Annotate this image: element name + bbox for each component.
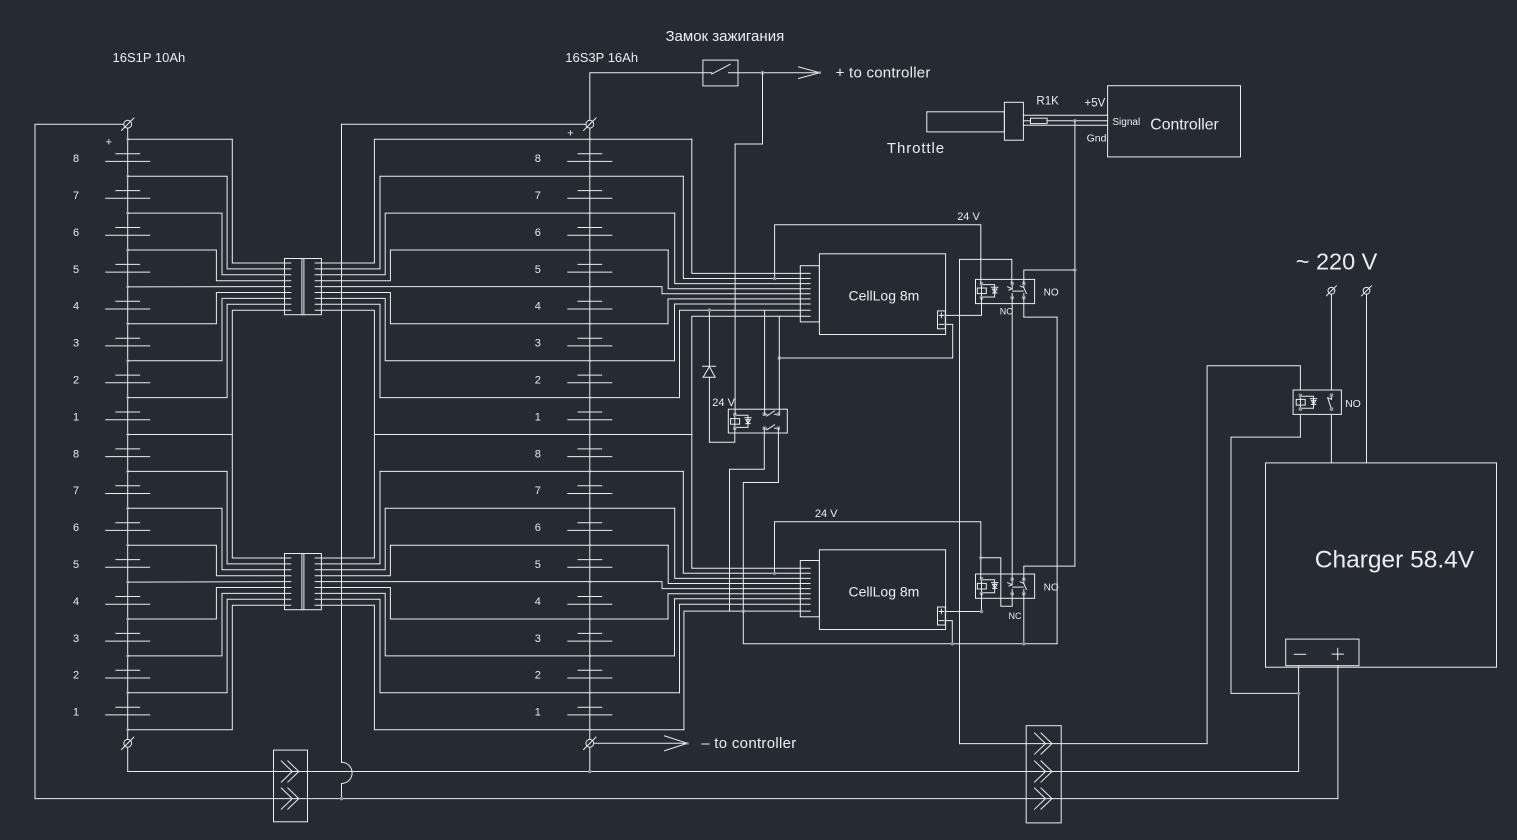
wire: K3 bottom-right contact down to output bus [743, 428, 778, 611]
node: B2 - on minus rail [588, 770, 592, 774]
svg-text:3: 3 [73, 633, 79, 645]
svg-text:6: 6 [535, 522, 541, 534]
B1 negative terminal (bottom circle) [124, 739, 132, 747]
svg-text:2: 2 [535, 375, 541, 387]
wire: K2 NO top to sense line end [1024, 566, 1075, 579]
svg-text:Gnd: Gnd [1087, 132, 1107, 144]
svg-text:2: 2 [73, 375, 79, 387]
svg-text:24 V: 24 V [815, 508, 838, 520]
wire: minus rail (negative bus to charger -) [128, 771, 1299, 773]
svg-text:7: 7 [73, 485, 79, 497]
svg-text:8: 8 [535, 153, 541, 165]
wire: charger + down to plus rail [1337, 666, 1339, 799]
svg-text:NC: NC [1009, 611, 1022, 621]
svg-text:7: 7 [535, 190, 541, 202]
svg-text:8: 8 [73, 448, 79, 460]
wire: U2 - output to output bus [945, 621, 952, 644]
battery pack B1 16S1P 10Ah (left string, 16 cells) [127, 128, 129, 739]
mains terminal L [1328, 287, 1335, 294]
B2 negative terminal (bottom circle) [586, 739, 594, 747]
svg-text:3: 3 [73, 338, 79, 350]
wires: B2 upper taps risers into U1 pin header [662, 139, 800, 434]
wire: B2 - terminal down to minus rail [589, 747, 591, 771]
svg-text:5: 5 [73, 559, 79, 571]
svg-text:3: 3 [535, 338, 541, 350]
svg-text:1: 1 [73, 707, 79, 719]
svg-text:5: 5 [535, 559, 541, 571]
wire: 24V feed to K1 coil + [775, 225, 981, 284]
connector X3 (discharge plug, 2 pins) [274, 750, 308, 822]
connector X2 (lower balance plug pair) [285, 554, 322, 610]
wire: B1 - terminal down to minus rail [127, 747, 129, 771]
svg-text:Signal: Signal [1112, 117, 1140, 128]
node: U2 - on output bus [951, 642, 955, 646]
wire: charger - down to minus rail [1298, 666, 1300, 772]
node: junction ignition output [761, 71, 765, 75]
node: D1 on U1 pin8 line [708, 308, 712, 312]
svg-text:2: 2 [73, 670, 79, 682]
svg-text:4: 4 [535, 596, 541, 608]
svg-text:1: 1 [73, 411, 79, 423]
diode D1 [703, 366, 716, 377]
wire: K5 coil - return to charger - line [1231, 414, 1300, 693]
B2 positive terminal (top circle) [586, 120, 594, 128]
svg-text:24 V: 24 V [957, 211, 980, 223]
wire: U1 - output to K3 contact [779, 324, 952, 358]
wire: B2 + terminal up to ignition switch [590, 73, 703, 121]
svg-text:+5V: +5V [1085, 98, 1106, 110]
connector X3 pin chevron 1 [281, 761, 299, 782]
wire: ignition switch to + to controller arrow [738, 72, 820, 74]
connector X4 (charge plug, 3 pins) [1026, 726, 1061, 823]
wire: K1 NO bottom down the chain [1024, 298, 1057, 644]
relay K2 coil with suppression diode [981, 579, 983, 594]
svg-text:4: 4 [535, 301, 541, 313]
wire: K1 NC bottom down to K2 common [1011, 298, 1013, 580]
node: K3 drop on U2 pin9 line [742, 609, 746, 613]
node: 24V tap on U2 pin2 line [773, 572, 777, 576]
throttle shaft cap [1004, 102, 1023, 140]
wires: B2 lower taps risers into U2 pin header [662, 435, 800, 730]
relay K3 coil with suppression diode [734, 415, 736, 429]
wire: K3 top contact stubs to U1 pin lines [765, 310, 780, 414]
svg-text:NO: NO [1044, 287, 1059, 298]
svg-text:NC: NC [1000, 306, 1013, 316]
svg-text:NO: NO [1345, 398, 1361, 410]
ignition switch S1 body [703, 60, 738, 86]
relay K5 NO contact [1328, 395, 1332, 409]
wire: mains L through K5 contact to charger [1330, 294, 1332, 463]
svg-text:8: 8 [73, 153, 79, 165]
svg-text:Замок зажигания: Замок зажигания [666, 28, 785, 45]
wire: K1 common feed loop (left leg down to charger relay line) [960, 259, 1012, 743]
connector X3 pin chevron 2 [281, 788, 299, 809]
battery pack B2 16S3P 16Ah (middle string, 16 cells) [589, 128, 591, 739]
svg-text:24 V: 24 V [712, 397, 735, 409]
svg-text:NO: NO [1044, 582, 1059, 593]
wires: X1 right side fan-out across B2 upper taps [321, 139, 691, 434]
relay K1 body [976, 279, 1035, 303]
arrow: + to controller [799, 67, 820, 79]
IC U2 CellLog 8m (lower cell monitor) [819, 550, 945, 630]
wire: U2 + output to K2 coil - [945, 594, 981, 612]
svg-text:6: 6 [73, 522, 79, 534]
connector X4 pin chevron 1 [1035, 733, 1053, 754]
node: U1 - joins K3 right stub [778, 356, 782, 360]
node: 24V tap on U1 pin2 line [773, 277, 777, 281]
svg-text:7: 7 [535, 485, 541, 497]
svg-text:8: 8 [535, 448, 541, 460]
wire: K3 coil - to diode D1 [709, 377, 734, 442]
relay K3 contact b [764, 427, 766, 429]
wire: mains N to charger [1366, 294, 1368, 463]
svg-text:2: 2 [535, 670, 541, 682]
B1 positive terminal (top circle) [124, 120, 132, 128]
wire: K3 bottom-left contact down to U2 pin9 line [730, 428, 765, 611]
svg-text:Charger 58.4V: Charger 58.4V [1315, 547, 1475, 574]
charger box [1266, 463, 1497, 667]
connector X4 pin chevron 3 [1035, 788, 1053, 809]
mains terminal N [1363, 287, 1370, 294]
relay K1 coil with suppression diode [981, 284, 983, 298]
wire: K1 NO top to sense line [1024, 270, 1075, 284]
svg-text:4: 4 [73, 301, 79, 313]
wire: ignition feed down to K3 coil + [735, 73, 762, 415]
relay K2 body [976, 574, 1035, 598]
svg-text:16S1P 10Ah: 16S1P 10Ah [113, 50, 186, 65]
connector X1 (upper balance plug pair) [285, 259, 322, 315]
svg-text:5: 5 [73, 264, 79, 276]
relay K2 changeover contact [1011, 579, 1013, 584]
wires: B1 lower-half balance taps into X2 left side [128, 435, 285, 730]
wire: B2 + feed down the middle [341, 124, 343, 798]
wire: charge-enable line through X4 up to K5 coil [960, 366, 1301, 744]
wire: U1 + output to K1 coil - [945, 298, 981, 316]
svg-text:16S3P 16Ah: 16S3P 16Ah [565, 50, 638, 65]
connector X4 pin chevron 2 [1035, 761, 1053, 782]
svg-text:Controller: Controller [1150, 116, 1218, 133]
wire: B2 + terminal to middle feed [342, 123, 586, 125]
controller box [1108, 86, 1241, 157]
relay K5 body [1293, 390, 1341, 414]
svg-text:4: 4 [73, 596, 79, 608]
node: sense line at K1 NO [1073, 268, 1077, 272]
ignition switch S1 blade [703, 64, 738, 74]
resistor R1K [1031, 118, 1048, 123]
svg-text:5: 5 [535, 264, 541, 276]
wires: B1 upper-half balance taps into X1 left side [128, 139, 285, 434]
node: signal line junction to relay chain [1073, 119, 1077, 123]
svg-text:Throttle: Throttle [887, 140, 945, 157]
charger + terminal mark [1332, 648, 1343, 659]
svg-text:– to controller: – to controller [701, 735, 796, 752]
wire: throttle +5V line [1023, 114, 1107, 116]
svg-text:~ 220 V: ~ 220 V [1296, 249, 1378, 275]
svg-text:+: + [567, 127, 573, 139]
relay K3 body [728, 409, 787, 433]
relay K1 changeover contact [1011, 284, 1013, 289]
svg-text:6: 6 [535, 227, 541, 239]
IC U1 CellLog 8m (upper cell monitor) [819, 254, 945, 335]
wire: relay chain sense line down from signal node [1074, 121, 1076, 566]
arrow: - to controller [594, 736, 688, 751]
svg-text:+ to controller: + to controller [836, 65, 931, 82]
wire: plus rail (positive bus to charger +) [35, 798, 1338, 800]
node: U2 + joins K2 coil leg [980, 610, 984, 614]
wire: K2 24V branch to NC loop [981, 558, 1012, 607]
node: K2 24V branch [979, 556, 983, 560]
svg-text:3: 3 [535, 633, 541, 645]
relay K3 contact a [764, 413, 766, 415]
svg-text:1: 1 [535, 411, 541, 423]
wire: diode D1 up to U1 pin8 line [708, 310, 710, 366]
svg-text:6: 6 [73, 227, 79, 239]
node: K5 return on charger - line [1297, 692, 1301, 696]
wire: throttle signal line right of R1 [1047, 120, 1108, 122]
svg-text:CellLog 8m: CellLog 8m [849, 288, 920, 304]
wire: left frame plus feed (B1 + around left edge) [35, 124, 124, 798]
wire: throttle Gnd line [1023, 124, 1107, 126]
svg-text:1: 1 [535, 707, 541, 719]
wires: X2 right side fan-out across B2 lower taps [321, 435, 691, 730]
wire: K2 NO bottom to output bus [1023, 594, 1025, 644]
wire: 24V feed to K2 coil + [775, 522, 981, 579]
relay K5 coil with suppression diode [1299, 395, 1301, 409]
svg-text:CellLog 8m: CellLog 8m [849, 583, 920, 599]
svg-text:R1K: R1K [1036, 96, 1059, 108]
charger output terminal block [1286, 639, 1359, 666]
wire: throttle signal line left of R1 [1023, 120, 1030, 122]
node: B2 + feed on plus rail [340, 797, 344, 801]
svg-text:+: + [106, 136, 112, 148]
throttle body [927, 112, 1005, 132]
node: K2 NO on output bus [1022, 642, 1026, 646]
wire: output bus from K3 drop to K1 NO leg [743, 611, 1057, 644]
charger - terminal mark [1294, 653, 1305, 655]
wire hop: B2 + feed over minus rail [342, 762, 353, 783]
svg-text:7: 7 [73, 190, 79, 202]
